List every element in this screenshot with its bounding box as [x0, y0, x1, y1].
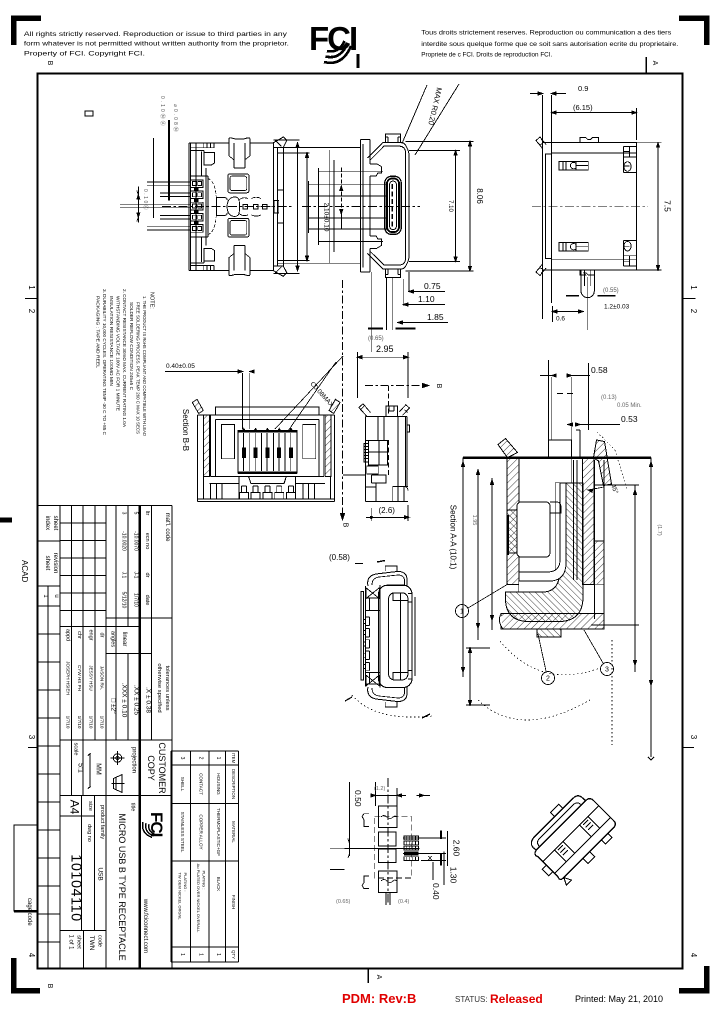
svg-text:(6.15): (6.15) — [573, 103, 593, 112]
view E small side view — [343, 344, 410, 521]
zone tick top A — [645, 57, 647, 73]
svg-text:All rights strictly reserved.: All rights strictly reserved. Reproducti… — [24, 31, 288, 38]
view A top view body outline — [120, 120, 309, 276]
B-B top plate — [215, 407, 319, 415]
svg-text:form whatever is not permitted: form whatever is not permitted without w… — [24, 41, 289, 48]
svg-text:PLATING :: PLATING : — [183, 872, 188, 891]
view C bottom-left ear — [536, 264, 546, 276]
svg-text:dr: dr — [144, 573, 150, 578]
view C dim 7.5 — [636, 143, 661, 270]
signature headers — [65, 629, 105, 641]
TITLEBLOCK-GROUP — [38, 506, 239, 969]
svg-text:date: date — [144, 595, 150, 606]
svg-text:A: A — [651, 61, 658, 66]
view B bottom tab — [386, 269, 401, 277]
svg-text:Au PLATED OVER NICKEL OVERALL: Au PLATED OVER NICKEL OVERALL — [196, 864, 201, 933]
svg-text:2.95: 2.95 — [376, 344, 394, 354]
E top-right ear — [399, 405, 409, 415]
E section connector — [343, 474, 366, 476]
svg-text:J-1: J-1 — [133, 572, 139, 579]
svg-text:(0.65): (0.65) — [368, 336, 384, 342]
svg-text:0.10ⓂⒶ: 0.10ⓂⒶ — [159, 96, 166, 128]
svg-text:1: 1 — [179, 953, 185, 956]
svg-text:.XXX ± 0.10: .XXX ± 0.10 — [121, 683, 128, 718]
view I isometric — [518, 785, 622, 889]
view A inner right dim line — [283, 153, 309, 261]
svg-text:u: u — [53, 594, 59, 597]
B-B leader lines — [275, 356, 343, 431]
svg-text:chr: chr — [76, 631, 82, 639]
B-B comb legs — [239, 486, 248, 499]
view B dim 0.75 — [409, 291, 445, 293]
svg-text:CYW HS PH: CYW HS PH — [77, 665, 82, 691]
svg-text:1.2±0.03: 1.2±0.03 — [604, 304, 630, 311]
view C flange plate — [543, 143, 552, 270]
view A spine — [206, 168, 208, 246]
svg-text:angles: angles — [110, 631, 116, 647]
svg-text:Released: Released — [490, 992, 543, 1006]
svg-text:B: B — [342, 523, 349, 528]
svg-text:3: 3 — [605, 667, 609, 674]
A-A right dims — [635, 458, 654, 760]
svg-text:3: 3 — [689, 735, 698, 740]
svg-text:10104110: 10104110 — [68, 854, 84, 921]
G top X tab — [366, 588, 380, 599]
rev row 1 — [121, 512, 139, 609]
svg-text:1.10: 1.10 — [418, 294, 435, 304]
B-B corner ear right hatched — [329, 399, 340, 413]
view A left pocket edges — [191, 151, 204, 264]
svg-text:otherwise specified: otherwise specified — [156, 663, 162, 712]
svg-text:revision: revision — [52, 553, 58, 574]
svg-text:WITHSTANDING VOLTAGE 100V AC F: WITHSTANDING VOLTAGE 100V AC FOR 1 MINUT… — [116, 296, 121, 411]
svg-text:(0.55): (0.55) — [603, 288, 619, 294]
view A step blocks — [204, 153, 214, 166]
svg-text:FCI: FCI — [147, 812, 166, 837]
H 2.60 dim — [403, 838, 446, 860]
svg-text:1.95: 1.95 — [471, 515, 477, 526]
svg-text:1. THE PRODUCT IS RoHS COMPLIA: 1. THE PRODUCT IS RoHS COMPLIANT AND COM… — [142, 296, 147, 437]
svg-text:Printed: May 21, 2010: Printed: May 21, 2010 — [575, 994, 663, 1004]
svg-text:MATERIAL: MATERIAL — [231, 821, 236, 843]
svg-text:INSULATION RESISTANCE 100MΩ MI: INSULATION RESISTANCE 100MΩ MIN — [109, 296, 114, 386]
svg-text:cage code: cage code — [26, 898, 32, 926]
svg-text:mat'l. code: mat'l. code — [164, 513, 170, 542]
corner crop mark bottom-right — [679, 966, 707, 991]
view B dim 1.85 — [398, 322, 448, 324]
view B tongue — [385, 176, 401, 234]
parts list annex lines — [171, 751, 238, 962]
A-A balloon 2 — [542, 672, 555, 685]
A-A right outer skin — [594, 460, 604, 619]
svg-text:4: 4 — [27, 953, 36, 958]
view B right extension lines — [406, 142, 474, 271]
fci logo titleblock — [143, 812, 166, 838]
A-A foot plate — [501, 614, 604, 630]
svg-text:0.58: 0.58 — [591, 365, 608, 375]
svg-text:3. DURABILITY 10,000 CYCLES. O: 3. DURABILITY 10,000 CYCLES. OPERATING T… — [102, 289, 107, 436]
svg-text:CONTACT: CONTACT — [199, 773, 204, 795]
svg-text:3: 3 — [179, 757, 185, 760]
VIEWS-GROUP — [120, 84, 484, 528]
svg-text:TWN: TWN — [88, 936, 95, 951]
svg-text:5/12/10: 5/12/10 — [121, 592, 127, 609]
bottom A marker — [367, 969, 369, 983]
svg-text:□ ±2°: □ ±2° — [110, 698, 118, 714]
svg-text:engr: engr — [88, 629, 94, 640]
E dim 2.95 — [358, 352, 409, 398]
A-A right wall hatched — [583, 458, 595, 585]
svg-text:THERMOPLASTIC+GF: THERMOPLASTIC+GF — [216, 808, 221, 856]
svg-text:.X ± 0.38: .X ± 0.38 — [145, 687, 152, 713]
svg-text:A4: A4 — [68, 800, 82, 815]
view C top-left ear — [536, 137, 546, 149]
view B inner height dim — [455, 151, 457, 262]
E foot right — [393, 486, 408, 501]
view C bottom dim marks — [566, 295, 616, 297]
G top cap — [368, 571, 407, 586]
A-A top center tab — [548, 440, 571, 458]
H dashed outline — [375, 817, 412, 878]
E center dash — [388, 386, 390, 475]
svg-text:www.fciconnect.com: www.fciconnect.com — [142, 898, 148, 953]
view A centerline — [162, 206, 294, 208]
A-A contact spring white — [519, 483, 566, 581]
svg-text:0.40±0.05: 0.40±0.05 — [166, 363, 195, 370]
E dim (2.6) — [366, 516, 409, 518]
status line — [342, 991, 663, 1006]
svg-text:-10.0020: -10.0020 — [121, 531, 127, 551]
svg-text:projection: projection — [131, 747, 137, 773]
svg-text:JOSEPH HSIEH: JOSEPH HSIEH — [66, 661, 71, 695]
view C top dim 6.15 — [552, 112, 637, 114]
svg-text:0.40: 0.40 — [431, 883, 441, 900]
svg-text:STATUS:: STATUS: — [455, 995, 488, 1004]
H centerlines — [345, 847, 420, 849]
svg-text:ecn no: ecn no — [144, 533, 150, 550]
svg-text:A: A — [375, 975, 382, 980]
G bottom X tab — [366, 675, 380, 686]
svg-text:2.60: 2.60 — [452, 840, 462, 857]
svg-text:0.75: 0.75 — [424, 281, 441, 291]
A-A bottom dotted arcs — [500, 641, 600, 675]
A-A foot small tab — [537, 629, 561, 637]
view B bottom extension verticals — [372, 272, 409, 352]
B-B bottom steps — [210, 483, 326, 485]
signature names — [66, 661, 105, 729]
A-A left top tab — [498, 439, 518, 458]
A-A left dims — [463, 458, 492, 677]
view C bottom tabs — [580, 270, 595, 275]
E lower block — [367, 466, 379, 474]
svg-text:1/7/10: 1/7/10 — [77, 716, 82, 729]
svg-text:sheet: sheet — [44, 556, 50, 571]
H 0.50 dim — [348, 782, 350, 856]
svg-text:3: 3 — [27, 735, 36, 740]
svg-text:1/7/10: 1/7/10 — [89, 716, 94, 729]
svg-text:(1.2): (1.2) — [374, 786, 385, 792]
svg-text:1.85: 1.85 — [427, 312, 444, 322]
view C centerline — [532, 205, 648, 207]
svg-text:7.5: 7.5 — [663, 200, 673, 212]
view A corner clip bottom-right — [273, 266, 287, 276]
svg-text:JESSY HSU: JESSY HSU — [89, 665, 94, 690]
view C top dim 0.9 — [530, 93, 566, 95]
svg-text:0.50: 0.50 — [353, 790, 363, 807]
svg-text:0.05 Min.: 0.05 Min. — [617, 403, 642, 409]
svg-text:(0.65): (0.65) — [336, 899, 351, 905]
A-A right top tab — [594, 440, 612, 486]
zone small square top-left — [85, 111, 93, 116]
corner crop mark bottom-left — [14, 958, 41, 991]
G right outer line — [414, 597, 416, 676]
svg-text:5:1: 5:1 — [77, 763, 84, 773]
svg-text:1: 1 — [198, 953, 204, 956]
view B 8.06 dim — [469, 142, 471, 271]
svg-text:(0.4): (0.4) — [398, 899, 409, 905]
svg-text:Property of FCI. Copyright FC: Property of FCI. Copyright FCI. — [24, 51, 145, 58]
projection symbol cone — [114, 775, 123, 793]
G bottom cap — [368, 687, 407, 702]
copyright text french — [421, 30, 678, 59]
section B-B view — [165, 356, 343, 502]
FCI logo top — [309, 20, 356, 63]
H pads column — [379, 806, 398, 827]
svg-text:B: B — [46, 984, 53, 989]
view A center contact chain — [227, 197, 239, 216]
svg-text:8.06: 8.06 — [475, 188, 484, 204]
view C side view — [530, 84, 673, 330]
svg-text:1: 1 — [460, 609, 464, 616]
view C inner latch bottom — [559, 242, 588, 251]
A-A datum line — [463, 457, 651, 459]
view B dim 1.10 — [403, 304, 445, 306]
E step — [371, 475, 386, 483]
view C leg — [581, 270, 594, 298]
gdt dotted marks top-left — [142, 96, 179, 211]
A-A inner white contact slot — [519, 483, 560, 592]
view A holes — [228, 174, 249, 193]
svg-text:PLATING :: PLATING : — [202, 870, 207, 889]
svg-text:(2.6): (2.6) — [379, 506, 396, 515]
A-A central hatched body with bottom L — [506, 483, 584, 622]
notes block — [96, 289, 155, 437]
svg-text:J.1: J.1 — [121, 572, 127, 579]
svg-text:scale: scale — [73, 743, 79, 756]
A-A tongue tip detail — [550, 502, 561, 513]
svg-text:product family: product family — [99, 805, 105, 839]
svg-text:ltr: ltr — [144, 511, 150, 516]
svg-text:CUSTOMER: CUSTOMER — [157, 742, 167, 794]
E body outline — [366, 416, 408, 501]
A-A 0.53 dim — [576, 425, 620, 431]
svg-text:size: size — [87, 801, 93, 811]
svg-text:7.10: 7.10 — [447, 200, 453, 212]
svg-text:1: 1 — [27, 285, 36, 290]
svg-text:interdite sous quelque forme q: interdite sous quelque forme que ce soit… — [421, 41, 678, 48]
svg-text:FINISH: FINISH — [231, 895, 236, 909]
svg-text:MICRO USB B TYPE RECEPTACL: MICRO USB B TYPE RECEPTACLE — [117, 813, 127, 960]
view B flange plate — [360, 139, 370, 272]
A-A contact tail verticals — [548, 360, 588, 458]
svg-text:index: index — [44, 516, 50, 530]
svg-text:QTY: QTY — [231, 950, 236, 959]
svg-text:FREE SOLDERING PROCESS. PEAK T: FREE SOLDERING PROCESS. PEAK TEMP 260 C … — [136, 302, 141, 434]
H 0.40 dim — [432, 862, 434, 880]
view A tongue arc — [208, 179, 217, 198]
svg-text:HOUSING: HOUSING — [216, 773, 221, 795]
view C right pad bottom — [624, 240, 637, 266]
view A right shell rails — [273, 143, 283, 271]
view A extra verticals — [195, 143, 197, 271]
view A bottom solder wing — [229, 271, 250, 276]
svg-text:Tous droits strictement reserv: Tous droits strictement reserves. Reprod… — [421, 30, 671, 37]
view A-B link lines — [277, 148, 360, 264]
H 1.30 dim — [443, 852, 445, 885]
G teeth — [363, 617, 369, 625]
svg-text:Section A-A (10:1): Section A-A (10:1) — [449, 505, 458, 570]
svg-text:2: 2 — [27, 309, 36, 314]
A-A 0.58 dim — [572, 375, 590, 377]
svg-text:COPY: COPY — [146, 755, 156, 781]
svg-text:PACKAGING : TAPE AND REEL: PACKAGING : TAPE AND REEL — [96, 296, 101, 368]
B-B outer box — [198, 415, 335, 502]
svg-text:title: title — [130, 803, 136, 812]
svg-text:4: 4 — [689, 953, 698, 958]
svg-text:MM: MM — [95, 763, 102, 775]
svg-text:1: 1 — [689, 285, 698, 290]
E top-left block — [366, 416, 384, 440]
E top center tab — [386, 406, 398, 416]
svg-text:ACAD: ACAD — [20, 560, 29, 582]
svg-text:2: 2 — [198, 757, 204, 760]
svg-text:0.9: 0.9 — [578, 84, 588, 93]
view C right pad top — [624, 147, 637, 173]
parts list texts — [178, 753, 236, 959]
view A left dim verticals — [138, 123, 169, 223]
svg-text:2.10±0.10: 2.10±0.10 — [323, 203, 330, 232]
FRAME-GROUP — [38, 74, 683, 969]
B-B white pockets — [221, 425, 234, 459]
B-B corner ear left hatched — [192, 399, 203, 413]
svg-text:DESCRIPTION: DESCRIPTION — [231, 769, 236, 799]
svg-text:B: B — [46, 61, 53, 66]
section A-A view — [449, 360, 663, 760]
view B top tab — [386, 134, 401, 142]
view H pcb footprint — [330, 778, 462, 905]
G right notches — [408, 594, 412, 679]
svg-text:linear: linear — [121, 632, 127, 647]
corner crop mark top-left — [14, 18, 42, 45]
svg-text:JASON RA.: JASON RA. — [100, 666, 105, 690]
svg-text:BLACK: BLACK — [216, 877, 221, 891]
svg-text:(0.13): (0.13) — [601, 395, 617, 401]
E foot left — [365, 483, 376, 502]
section line B-B — [342, 280, 344, 512]
svg-text:1: 1 — [215, 757, 221, 760]
view A top solder wing — [229, 138, 250, 143]
svg-text:Propriete de c FCI. Droits de: Propriete de c FCI. Droits de reproducti… — [421, 51, 552, 58]
drawing frame — [38, 74, 683, 969]
H top dim — [372, 794, 430, 796]
G dotted arcs bottom — [352, 695, 432, 717]
view C flange ext lines — [543, 95, 552, 319]
svg-text:dwg no: dwg no — [86, 824, 92, 842]
view B leg width marks — [368, 328, 416, 330]
titleblock vertical lines — [47, 586, 49, 969]
E right plate — [398, 416, 407, 501]
svg-text:1/7/10: 1/7/10 — [100, 716, 105, 729]
A-A white cavity — [517, 502, 550, 557]
view B left latch top — [370, 164, 382, 176]
view B shell outline — [370, 146, 400, 265]
fold tick left mid — [0, 518, 12, 523]
svg-text:5: 5 — [133, 512, 139, 515]
svg-text:2: 2 — [689, 309, 698, 314]
svg-text:sheet: sheet — [76, 935, 82, 949]
svg-text:USB: USB — [97, 867, 104, 880]
svg-text:1/7/10: 1/7/10 — [133, 593, 139, 607]
titleblock horizontal lines — [38, 505, 173, 507]
view B left dim verticals — [309, 168, 319, 245]
svg-text:SHELL: SHELL — [180, 777, 185, 792]
G flange column — [365, 585, 380, 687]
A-A balloon 1 — [456, 605, 469, 618]
view G rear outline view — [329, 553, 432, 718]
svg-text:⌀0.08Ⓜ: ⌀0.08Ⓜ — [172, 104, 179, 134]
B-B housing interior — [211, 420, 324, 477]
svg-text:tolerances unless: tolerances unless — [164, 665, 170, 710]
view B left latch bottom — [370, 236, 382, 248]
B-B pedestal — [249, 477, 287, 484]
svg-text:1: 1 — [215, 953, 221, 956]
view C top tabs — [580, 138, 599, 143]
svg-text:0.53: 0.53 — [621, 414, 638, 424]
svg-text:PDM: Rev:B: PDM: Rev:B — [342, 991, 416, 1006]
G left thin plate — [361, 592, 364, 680]
svg-text:COPPER ALLOY: COPPER ALLOY — [199, 814, 204, 849]
svg-text:1.30: 1.30 — [449, 867, 459, 884]
view A corner clip top-right — [273, 137, 287, 148]
B-B contact block — [238, 431, 297, 474]
view B mid dim arrows — [340, 168, 342, 209]
copyright text english — [24, 31, 289, 58]
A-A bottom dim — [466, 648, 490, 705]
svg-text:sheet: sheet — [52, 516, 58, 531]
svg-text:1 of 1: 1 of 1 — [68, 934, 74, 950]
B-B top-left dim — [165, 371, 238, 373]
svg-text:dr: dr — [99, 633, 105, 638]
E striped box — [364, 444, 369, 462]
B-B left wall hatch — [204, 415, 210, 477]
A-A balloon 3 — [601, 663, 614, 676]
H left hooks — [362, 814, 369, 827]
projection symbol circle — [111, 751, 125, 793]
view A terminal legs — [191, 180, 203, 188]
svg-text:NOTE:: NOTE: — [149, 292, 155, 309]
corner crop mark top-right — [679, 18, 707, 45]
view B front view — [302, 84, 484, 528]
view C inner latch top — [559, 161, 588, 170]
svg-text:Section B-B: Section B-B — [181, 409, 190, 451]
A-A dotted leader right — [597, 432, 627, 490]
svg-text:appd: appd — [65, 629, 71, 641]
view C body — [552, 143, 637, 270]
svg-text:B: B — [435, 384, 442, 389]
svg-text:STAINLESS STEEL: STAINLESS STEEL — [180, 812, 185, 853]
A-A mid dashes — [557, 393, 573, 395]
svg-text:code: code — [97, 935, 103, 947]
